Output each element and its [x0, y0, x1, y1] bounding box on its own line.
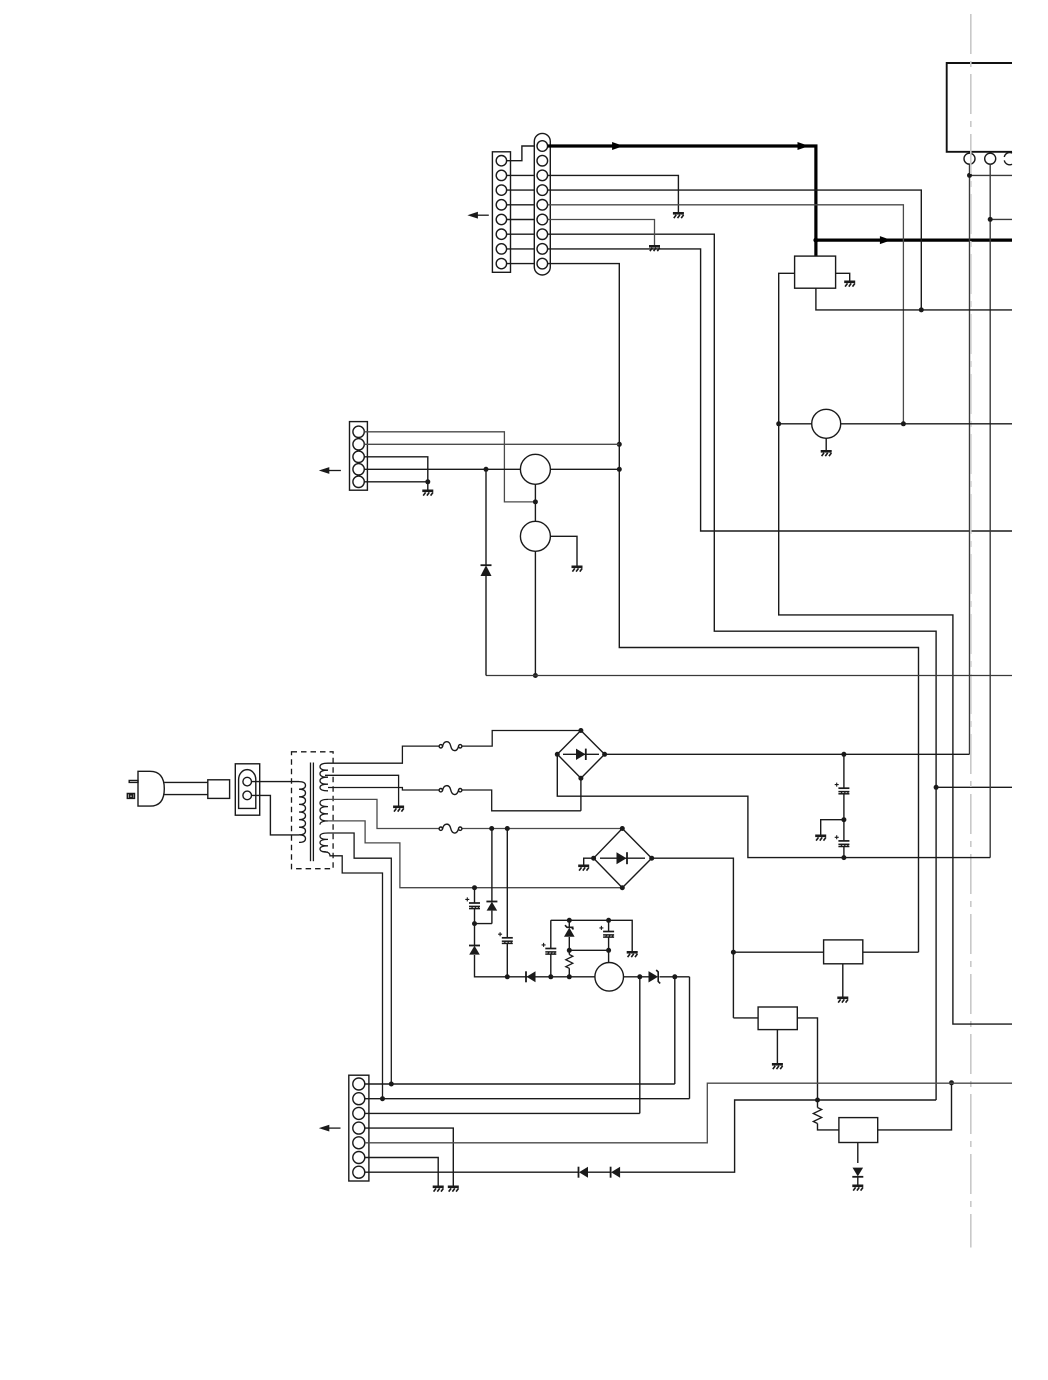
- node DB2 DC+ at M1: [731, 950, 736, 955]
- wire gnd bus top: [551, 920, 632, 951]
- plug P1 body: [138, 771, 164, 806]
- fuse F1: [439, 742, 462, 751]
- wire DB2 DC- to ground: [584, 858, 594, 864]
- bridge DB2 inner diode: [600, 857, 645, 859]
- wire mid to ground: [821, 820, 844, 835]
- plug P1 prong lower: [127, 794, 134, 799]
- node CN3 pin4 branch: [484, 467, 489, 472]
- zener ZD1 leads: [568, 920, 570, 950]
- ground CN2 pin3: [673, 213, 684, 218]
- wire CN2 pin3 to ground: [548, 175, 679, 212]
- transformer T1 secondary 2: [320, 799, 328, 824]
- diode D2 (cathode up): [487, 902, 498, 911]
- wire CN4 pin3: [365, 1112, 640, 1114]
- wire CN1-CN2 tie rows: [501, 175, 543, 263]
- capacitor C1: [843, 754, 845, 819]
- wire M3 right lead: [878, 1083, 952, 1130]
- node C1-C2 mid: [841, 817, 846, 822]
- wire CN5 pin2 branch right: [990, 218, 1012, 220]
- wire after ZD2: [660, 976, 690, 978]
- transformer T1 core: [310, 763, 312, 862]
- node R2 top: [815, 1098, 820, 1103]
- wire CN5 pin1 down to bridge DC+: [969, 164, 971, 754]
- wire to CN4 pin1: [674, 977, 676, 1084]
- transformer T1 primary winding: [299, 782, 306, 843]
- transistor Q4 (pass regulator): [595, 963, 624, 992]
- ground C1C2: [815, 836, 826, 841]
- plug P1 prong upper: [129, 780, 138, 782]
- wire thick bus top: [548, 146, 816, 256]
- ground Q3: [821, 451, 832, 456]
- wire Q2 bottom: [534, 551, 536, 675]
- wire CN3 pin1: [364, 432, 535, 502]
- diode D7 (cathode left): [611, 1167, 620, 1178]
- capacitor C6: [599, 926, 614, 938]
- capacitor C2: [843, 820, 845, 858]
- node CN5 pin2 tee: [988, 217, 993, 222]
- ground M1: [837, 998, 848, 1003]
- wire CN2 pin9: [548, 264, 919, 953]
- wire Q1-Q2 link: [534, 484, 536, 521]
- ground Q2: [572, 567, 583, 572]
- zener ZD1 (cathode up): [565, 925, 574, 929]
- diode D4 (horizontal, cathode left): [527, 971, 536, 982]
- wire pin7 branch right: [936, 786, 1012, 788]
- wire CN3 pin2: [364, 443, 619, 445]
- node M3 right at bus: [949, 1080, 954, 1085]
- wire Q4 output: [624, 976, 649, 978]
- node DC- cap tap: [841, 855, 846, 860]
- wire secondary3 bottom to CN4 pin2: [322, 852, 383, 1099]
- node pin7 branch: [934, 785, 939, 790]
- wire U1 right lead to ground: [836, 273, 850, 280]
- wire CN4 pin7 (to 1100 bus): [365, 1100, 936, 1172]
- connector CN5 pins: [964, 153, 1012, 165]
- wire CN2 pin8: [548, 249, 1012, 531]
- diode D5 lead: [857, 1178, 859, 1185]
- node fuse3 line taps: [489, 826, 494, 831]
- wire power cord: [164, 782, 208, 794]
- wire F2 to bridge DB1 AC2: [462, 790, 581, 811]
- wire DB1 DC+ rail: [605, 753, 970, 755]
- wire CN4 pin6 to ground: [365, 1158, 438, 1186]
- ground M2: [772, 1064, 783, 1069]
- ground CN4 pin6: [433, 1187, 444, 1192]
- wire CN1 pin1 jog to CN2 pin1: [501, 146, 537, 161]
- module M2 body: [758, 1007, 797, 1030]
- wire F1 to bridge DB1 AC1: [462, 731, 581, 747]
- fuse F2: [439, 786, 462, 795]
- wire DB1 AC2 stub: [580, 778, 582, 811]
- socket J1 contacts: [243, 777, 252, 786]
- wire to CN4 pin3: [639, 977, 641, 1114]
- node CN3 pin5/3 junction: [425, 479, 430, 484]
- wire CN4 pin4 to ground: [365, 1128, 454, 1185]
- wire DB2 DC+ down to modules: [652, 858, 734, 1018]
- node U1 bottom line / pin4: [919, 307, 924, 312]
- node DB2 vertices: [620, 826, 625, 831]
- node pin9 dots: [617, 442, 622, 447]
- wire M3 bottom stem: [857, 1143, 859, 1164]
- capacitor C5 leads: [550, 920, 552, 977]
- resistor R1 leads: [568, 950, 570, 977]
- transformer T1 secondary 3: [320, 833, 328, 852]
- node CN5 pin1 tee: [967, 173, 972, 178]
- node Q3 right: [901, 421, 906, 426]
- node CN4 pin1 tap: [389, 1082, 394, 1087]
- node Q4 out taps: [637, 974, 642, 979]
- connector CN2 pins: [537, 141, 548, 269]
- wire Q3 right lead: [841, 423, 1012, 425]
- transistor Q3: [812, 409, 841, 438]
- ground U1: [844, 282, 855, 287]
- wire M2 left lead: [733, 1017, 758, 1019]
- capacitor C4 leads (from fuse3 tap2): [506, 829, 508, 977]
- ground T1 tap: [393, 807, 404, 812]
- node bus junction: [813, 238, 818, 243]
- module M1 body: [824, 940, 863, 964]
- node C4 bottom on rail: [505, 974, 510, 979]
- ground DB2: [578, 866, 589, 871]
- node Q1-Q2 link: [533, 499, 538, 504]
- connector CN3 body: [350, 422, 368, 491]
- diode D1 (vertical, from CN3 pin4 node): [481, 469, 492, 675]
- wire F3 to bridge DB2 AC1: [462, 828, 622, 830]
- node sec2 line tap: [472, 885, 477, 890]
- capacitor C5: [542, 943, 557, 955]
- arrow to CN4 (off-page left): [319, 1125, 341, 1132]
- wire CN2 pin4: [548, 190, 922, 310]
- node CN4 pin2 tap: [380, 1096, 385, 1101]
- node Q2 bottom: [533, 673, 538, 678]
- wire J1 to T1 primary bottom: [252, 795, 300, 835]
- cord ferrule: [208, 780, 230, 799]
- resistor R1: [566, 955, 573, 969]
- wire CN5 pin2 down to DC- rail: [989, 164, 991, 857]
- capacitor C6 leads: [608, 920, 610, 962]
- zener ZD2 (horizontal, cathode right): [649, 971, 659, 982]
- wire secondary2 top to fuse F3: [328, 799, 439, 828]
- wire secondary1 top to fuse F1: [328, 746, 439, 763]
- ground CN4 pin4: [448, 1187, 459, 1192]
- ground CN3: [422, 491, 433, 496]
- node C3-D3 junction: [472, 921, 477, 926]
- module M3 body: [839, 1118, 878, 1143]
- wire secondary2 bottom to bridge DB2 AC2: [325, 821, 622, 888]
- wire ZD1-C6 link: [569, 949, 608, 951]
- wire to CN4 pin2: [689, 977, 691, 1099]
- wire bus 675: [486, 675, 1012, 677]
- diode D6 (cathode left): [579, 1167, 588, 1178]
- connector CN4 body: [349, 1075, 369, 1181]
- arrow to CN3 (off-page left): [319, 467, 341, 474]
- wire Q1 right lead: [550, 468, 619, 470]
- node DC+ cap tap: [841, 752, 846, 757]
- wire Q3 left lead: [779, 423, 812, 425]
- module U1 body: [795, 256, 836, 288]
- wire secondary1 tap to ground: [325, 775, 399, 805]
- wire secondary1 bottom to fuse F2: [328, 788, 439, 791]
- page fold dash-dot line: [970, 14, 972, 1248]
- wire Q3 emitter to ground: [825, 438, 827, 450]
- wire CN2 pin5: [548, 205, 904, 424]
- wire CN3 pin4: [364, 468, 520, 470]
- node rail taps: [548, 974, 553, 979]
- node DB1 vertices: [578, 728, 583, 733]
- socket J1 body: [235, 764, 259, 815]
- capacitor C3: [465, 897, 480, 909]
- wire CN2 pin7: [548, 234, 937, 1100]
- wire secondary3 top to CN4 pin1: [328, 833, 391, 1084]
- ground regulator: [627, 952, 638, 957]
- module A1 (clipped at page edge): [947, 63, 1012, 152]
- wire Q2 right lead to ground: [550, 536, 577, 565]
- capacitor C3 leads: [474, 888, 476, 924]
- bridge DB1 inner diode: [563, 753, 599, 755]
- ground CN2 pin6: [649, 246, 660, 251]
- wire J1 to T1 primary top: [252, 781, 300, 783]
- resistor R2 leads: [818, 1100, 839, 1130]
- diode D3 (cathode up): [469, 946, 480, 955]
- wire M1 ground stem: [842, 964, 844, 997]
- wire CN5 pin1 branch right: [970, 174, 1013, 176]
- arrowheads on thick bus: [612, 142, 624, 150]
- diode D2 leads (to fuse3 tap): [491, 829, 493, 924]
- node Q3 left: [776, 421, 781, 426]
- wire CN2 pin6 to ground: [548, 220, 655, 246]
- diode D5 (cathode down): [853, 1168, 864, 1177]
- wire DB1 DC- rail: [557, 754, 990, 857]
- fuse F3: [439, 824, 462, 833]
- wire U1 left lead down and around: [779, 273, 1012, 1024]
- connector CN2 body: [534, 133, 550, 275]
- wire M1 right lead: [863, 951, 919, 953]
- wire M2 ground stem: [776, 1030, 778, 1063]
- diode D3 leads (down): [475, 924, 595, 977]
- connector CN1 pins: [496, 156, 506, 269]
- capacitor C4: [498, 932, 513, 944]
- arrow to CN1 (off-page left): [467, 212, 488, 219]
- connector CN1 body: [492, 152, 510, 272]
- bridge DB2 diamond: [594, 829, 652, 888]
- wire thick bus right: [816, 239, 1012, 242]
- wire U1 bottom out: [816, 288, 1012, 310]
- transistor Q1: [520, 454, 550, 484]
- transformer T1 secondary 1: [320, 763, 328, 791]
- wire M1 left lead: [733, 951, 823, 953]
- wire CN4 pin5 (to 1083 bus): [365, 1083, 1012, 1143]
- wire CN3 pin5 to ground: [364, 482, 428, 490]
- bridge DB1 diamond: [557, 731, 604, 779]
- wire CN3 pin3: [364, 457, 428, 482]
- wire CN4 pin1: [365, 1083, 675, 1085]
- wire M2 right lead: [797, 1018, 817, 1100]
- wire CN4 pin2: [365, 1098, 690, 1100]
- ground M3: [852, 1186, 863, 1191]
- transistor Q2: [520, 521, 550, 551]
- wire C3 node link right: [475, 923, 492, 925]
- transformer T1 shield box: [292, 752, 334, 869]
- resistor R2: [813, 1108, 821, 1124]
